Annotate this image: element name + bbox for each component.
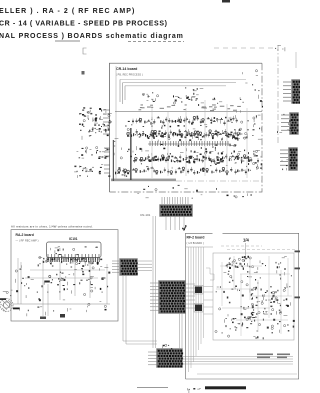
cluster dense bottom <box>226 312 256 328</box>
cluster wire v5 <box>257 280 259 332</box>
wire drop 1 <box>119 80 121 103</box>
cluster wire v8 <box>287 258 289 296</box>
cluster wire v1 <box>221 262 223 306</box>
component below sheet mark <box>244 256 249 259</box>
connector CN201 pins <box>283 82 292 101</box>
CN101 lower pin wires <box>166 216 184 230</box>
component row: transistors Q11-Q18 <box>127 129 243 138</box>
label block 2 (VARIABLE SPEED / PB BOARD) <box>277 354 290 359</box>
svg-text:CR - 14 ( VARIABLE - SPEED PB: CR - 14 ( VARIABLE - SPEED PB PROCESS) <box>0 21 168 28</box>
underline under BOARDS <box>55 40 80 42</box>
board outline RA-2 (lower left box) <box>11 230 118 321</box>
wire horizontal B main <box>13 303 110 305</box>
parts near CN203 <box>282 149 289 171</box>
long wire 1 from CN104 <box>182 356 293 358</box>
long wire 4 from CN104 <box>182 363 293 365</box>
cluster wire v3 <box>240 274 242 336</box>
gap filler parts <box>133 144 236 157</box>
dark component dashes row 2 <box>143 156 250 164</box>
svg-text:1/4: 1/4 <box>243 238 249 243</box>
cluster wire h5 <box>222 307 270 309</box>
IC101 dense pin band <box>47 258 99 263</box>
fold line right <box>277 45 279 145</box>
wire under ticks <box>148 143 231 145</box>
small mark left 2 <box>82 71 85 75</box>
component group right upper <box>240 70 263 108</box>
trunk wire 5 <box>179 313 181 349</box>
component group Q2 area <box>173 95 182 104</box>
marks above CN104 <box>162 344 172 349</box>
dashed wire top C2 <box>227 248 296 250</box>
trunk wire 3 <box>122 275 124 341</box>
RA-2 lower components <box>20 293 107 316</box>
dark component pair <box>56 272 63 282</box>
cluster wire h1 <box>220 265 262 267</box>
connector CN101 pin wires <box>162 197 188 205</box>
resistor dark bar <box>44 281 50 283</box>
ground symbols row <box>143 185 217 192</box>
mid band extra parts <box>128 115 240 142</box>
component row: caps C21-C40 <box>130 154 259 164</box>
wire vertical B3 <box>42 260 44 316</box>
wire vertical C1 <box>188 247 190 372</box>
cluster wire h2 <box>240 273 290 275</box>
RA-2 mid components <box>15 264 110 293</box>
wire stub C5 <box>204 313 214 315</box>
long wire 2 from CN104 <box>182 358 293 360</box>
cluster dense right <box>251 286 291 314</box>
svg-text:All resistors are in ohms, 1/4: All resistors are in ohms, 1/4W unless o… <box>11 225 93 229</box>
parts near CN202 <box>277 114 292 133</box>
wire vertical C5 <box>198 247 200 350</box>
wire drop 2 <box>122 83 124 104</box>
pin stub right 3 <box>295 297 301 299</box>
bottom gray line <box>137 387 168 389</box>
pin stubs left 2 <box>104 148 110 156</box>
cluster wire v7 <box>280 270 282 334</box>
pin stubs left 1 <box>103 110 110 134</box>
wire top C3 <box>186 246 214 248</box>
wire vertical B2 <box>20 262 22 304</box>
component row: resistors R11-R26 <box>132 116 238 126</box>
ground mark <box>40 317 46 320</box>
svg-text:RF-2 board: RF-2 board <box>187 236 205 240</box>
cluster wire v6 <box>268 256 270 318</box>
wire vertical B5 <box>59 262 61 300</box>
wire vertical C6 <box>200 247 202 344</box>
marks below board A <box>137 193 252 198</box>
dark component dashes row 1 <box>148 131 239 140</box>
component group right lower <box>238 150 263 169</box>
long wire 3 from CN104 <box>182 361 293 363</box>
connector CN203 <box>288 147 298 171</box>
relay S1 <box>195 287 202 294</box>
wire stub C4 <box>204 306 214 308</box>
bracket mark left 1 <box>83 48 87 54</box>
wire vertical C2 <box>190 247 192 368</box>
wire vertical A3 <box>185 108 187 176</box>
pin tick row (IC bus) <box>150 141 228 146</box>
underline under schematic diagram <box>128 41 184 43</box>
pin stub right 1 <box>295 251 301 253</box>
connector CN202 pins <box>281 115 290 130</box>
faint fold line <box>214 47 274 49</box>
wire vertical B6 <box>74 262 76 296</box>
wire vertical A6 <box>246 108 248 178</box>
wire vertical B8 <box>106 264 108 304</box>
wire vertical B7 <box>89 262 91 298</box>
svg-text:— ( RF REC AMP ): — ( RF REC AMP ) <box>16 240 39 243</box>
board outline CR-14 (top box) <box>110 63 263 192</box>
connector CN203 pins <box>280 150 289 165</box>
connector CN201 <box>291 79 301 104</box>
inner section frame <box>213 253 294 340</box>
thick ground bus <box>111 179 176 182</box>
trunk wire 4 <box>125 275 127 344</box>
cluster wire h3 <box>216 288 258 290</box>
pin stubs left 3 <box>104 165 110 173</box>
board outline RF-2 (lower right box) <box>186 233 299 379</box>
svg-text:NAL PROCESS ) BOARDS schemat: NAL PROCESS ) BOARDS schematic diagram <box>0 33 184 40</box>
wire left rail <box>115 66 117 180</box>
svg-text:CN-101: CN-101 <box>140 213 151 217</box>
connector CN102 <box>119 258 138 276</box>
trunk wire 1 <box>152 216 154 348</box>
component group right mid <box>232 110 262 141</box>
wire vertical B1 <box>17 258 19 304</box>
wire vertical A5 <box>226 104 228 176</box>
pin stub right 2 <box>295 268 301 270</box>
trunk wire 2 <box>155 216 157 348</box>
component group Q3 area <box>185 87 204 106</box>
wire vertical A4 <box>204 100 206 176</box>
stair wire <box>206 268 214 280</box>
marks above J1 <box>3 290 13 296</box>
connector CN202 <box>289 112 299 135</box>
connector CN103 <box>158 280 186 314</box>
svg-text:( PB, REC PROCESS ): ( PB, REC PROCESS ) <box>116 74 143 77</box>
svg-text:CR-14 board: CR-14 board <box>116 67 137 71</box>
trunk wire 4 horiz <box>126 343 157 345</box>
designator labels row <box>139 104 241 111</box>
wire bus 3 <box>125 85 226 87</box>
coax connector J1 <box>0 298 20 312</box>
svg-text:IC101: IC101 <box>69 237 78 241</box>
bottom dark bar <box>205 386 246 389</box>
IC101 pin row <box>48 254 99 260</box>
wire vertical C3 <box>193 247 195 362</box>
left column parts <box>114 126 130 178</box>
wire vertical A2 <box>167 112 169 176</box>
lower band extra parts <box>136 150 262 170</box>
connector CN101 <box>159 204 193 217</box>
wire bus 1 <box>120 79 246 81</box>
wire above bottom border <box>197 373 297 375</box>
chain wire bottom <box>176 180 262 182</box>
trunk wire 3 horiz <box>123 340 157 342</box>
cluster wire h6 <box>236 319 288 321</box>
svg-text:RA-2 board: RA-2 board <box>16 233 34 237</box>
wire horizontal B2 <box>30 269 105 271</box>
component row: bottom parts <box>115 166 251 175</box>
IC101 internal pins <box>51 246 98 255</box>
wire bus 2 <box>123 82 237 84</box>
dashed wire top C1 <box>221 245 262 247</box>
junction marks below CN101 <box>182 225 187 231</box>
wire vertical C4 <box>195 247 197 356</box>
cluster dense top <box>228 256 251 270</box>
CN104 left pin wires <box>148 352 157 365</box>
label block 1 (VARIABLE SPEED / PB BOARD) <box>257 354 273 359</box>
CN103 right pin wires <box>185 284 195 308</box>
heavy vertical wire <box>130 128 131 180</box>
CN103 left pin wires <box>150 283 159 310</box>
test point TP1 <box>60 314 65 318</box>
cluster wire v4 <box>249 258 251 300</box>
svg-text:ELLER ) . RA - 2 ( RF REC: ELLER ) . RA - 2 ( RF REC AMP) <box>0 8 135 15</box>
op-amp IC101 body <box>47 242 102 258</box>
wire stub C1 <box>204 286 214 288</box>
wire mid bus <box>115 111 262 113</box>
cluster wire h4 <box>250 295 292 297</box>
CN102 pin fan <box>112 261 120 272</box>
svg-text:( 1/3 BOARD ): ( 1/3 BOARD ) <box>187 242 204 245</box>
wire from sheet mark <box>245 243 247 256</box>
bottom small marks <box>188 388 201 393</box>
connector pins group left 2 <box>77 147 110 160</box>
connector pins group left 3 <box>74 164 110 178</box>
CN102 right wires <box>137 261 152 271</box>
registration mark top edge <box>222 0 230 3</box>
IC101 pin components band <box>39 256 102 266</box>
wire horizontal B3 <box>25 277 98 279</box>
tiny marks top right <box>275 45 285 51</box>
cluster wire v2 <box>233 256 235 288</box>
wire stub C2 <box>204 291 214 293</box>
component group R upper <box>212 98 222 104</box>
wire vertical A1 <box>151 105 153 178</box>
wire vertical C7 <box>203 247 205 338</box>
wire stub C3 <box>204 299 214 301</box>
component group Q1 area <box>142 92 158 102</box>
trunk wire 6 <box>181 313 183 349</box>
connector CN104 <box>156 348 183 368</box>
wire vertical B4 <box>47 284 49 316</box>
relay S2 <box>195 305 202 312</box>
wire drop 3 <box>124 86 126 100</box>
heavy vertical wire 2 <box>113 140 114 181</box>
bracket mark right edge <box>295 52 297 68</box>
RF-2 transistor cluster <box>215 257 295 340</box>
connector pins group left 1 <box>79 107 112 140</box>
